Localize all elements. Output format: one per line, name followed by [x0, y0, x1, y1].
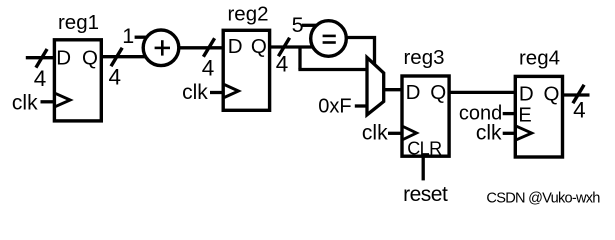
- svg-text:0xF: 0xF: [318, 96, 351, 118]
- mux M1: [367, 58, 384, 115]
- svg-text:D: D: [519, 83, 534, 106]
- wire clk to reg1: [41, 100, 55, 103]
- bus slash adder to reg2: [203, 38, 214, 57]
- register reg4: [515, 76, 562, 157]
- wire comparator output to mux select: [346, 38, 374, 67]
- clock triangle (reg4): [516, 126, 531, 140]
- svg-text:CLR: CLR: [407, 138, 442, 158]
- svg-text:4: 4: [109, 65, 122, 90]
- register reg2: [223, 30, 269, 110]
- register reg3: [402, 76, 449, 156]
- svg-text:Q: Q: [251, 35, 267, 58]
- wire reg2 Q to comparator: [270, 45, 314, 48]
- svg-text:reg1: reg1: [58, 11, 99, 34]
- svg-text:reg4: reg4: [519, 47, 560, 70]
- register reg1: [54, 40, 101, 121]
- svg-text:reg3: reg3: [403, 46, 444, 69]
- svg-text:reg2: reg2: [227, 2, 268, 25]
- comparator U2 circle: [311, 21, 347, 57]
- svg-text:D: D: [406, 81, 421, 104]
- svg-text:CSDN @Vuko-wxh: CSDN @Vuko-wxh: [486, 190, 600, 206]
- wire reg3 Q to reg4 D: [449, 91, 515, 94]
- wire branch to mux input 0: [298, 68, 367, 71]
- svg-text:Q: Q: [82, 47, 98, 70]
- wire adder to reg2 D: [179, 46, 223, 49]
- wire constant 5 to comparator: [302, 24, 318, 27]
- wire reg1 D input: [26, 56, 55, 59]
- wire cond to reg4 E: [503, 112, 516, 115]
- wire clk to reg3: [388, 132, 402, 135]
- wire clk to reg4: [503, 132, 516, 135]
- comparator equals sign: [323, 35, 336, 38]
- bus slash on reg2 output: [278, 38, 289, 57]
- adder plus sign: [155, 47, 170, 50]
- wire reg4 Q output: [563, 93, 590, 96]
- svg-text:5: 5: [292, 13, 304, 37]
- wire clk to reg2: [210, 91, 223, 94]
- svg-text:4: 4: [202, 55, 215, 80]
- svg-text:clk: clk: [362, 121, 388, 144]
- svg-text:Q: Q: [430, 81, 446, 104]
- svg-text:1: 1: [122, 24, 134, 48]
- wire reset to reg3 CLR: [422, 156, 425, 180]
- bus slash on reg4 output: [573, 85, 584, 104]
- clock triangle (reg1): [55, 93, 70, 106]
- svg-text:D: D: [228, 35, 243, 58]
- svg-text:clk: clk: [476, 122, 502, 145]
- svg-text:clk: clk: [182, 81, 208, 104]
- wire reg1 Q to adder: [101, 55, 146, 58]
- svg-text:Q: Q: [544, 83, 560, 106]
- svg-text:4: 4: [34, 66, 47, 91]
- wire mux output to reg3 D: [384, 88, 402, 91]
- svg-text:reset: reset: [403, 183, 448, 206]
- bus slash on reg1 input: [36, 49, 47, 68]
- clock triangle (reg3): [403, 127, 417, 140]
- svg-text:E: E: [518, 104, 531, 126]
- svg-text:4: 4: [573, 98, 586, 123]
- wire constant 1 to adder: [135, 36, 149, 39]
- svg-text:clk: clk: [12, 91, 38, 114]
- wire 0xF to mux input 1: [355, 104, 367, 107]
- node junction branch to mux: [298, 47, 301, 70]
- clock triangle (reg2): [224, 85, 238, 98]
- svg-text:D: D: [56, 47, 71, 70]
- svg-text:4: 4: [276, 52, 289, 77]
- bus slash on reg1 output: [111, 48, 122, 67]
- adder U1 circle: [143, 30, 179, 66]
